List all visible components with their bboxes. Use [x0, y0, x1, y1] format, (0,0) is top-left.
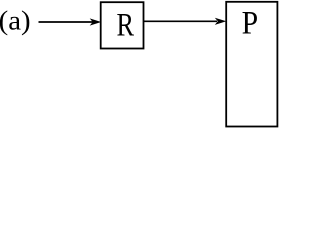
wire arrow from R to P — [144, 18, 227, 25]
svg-text:(a): (a) — [0, 6, 31, 37]
svg-text:P: P — [242, 6, 259, 42]
svg-text:R: R — [117, 8, 135, 44]
block P — [226, 2, 277, 127]
block R — [101, 2, 144, 48]
label (a) — [0, 6, 31, 37]
wire arrow from (a) to R — [39, 18, 102, 25]
